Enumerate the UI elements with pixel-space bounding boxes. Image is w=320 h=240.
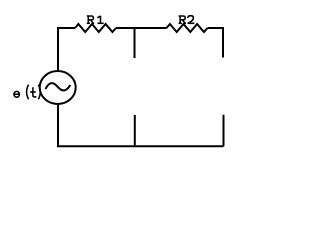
wire R2 to top-right corner down xyxy=(208,28,224,58)
wire bottom from source to right xyxy=(58,104,224,146)
label R2 glyph R xyxy=(179,16,186,23)
label e(t) glyph t xyxy=(30,87,36,97)
wire middle branch lower stub xyxy=(134,115,136,146)
label R1 glyph R xyxy=(87,16,94,23)
wire R1 to R2 xyxy=(116,27,167,29)
label e(t) glyph ) xyxy=(38,85,40,100)
wire right branch lower stub xyxy=(223,115,225,147)
ac source e(t) circle xyxy=(40,71,76,104)
label R1 glyph 1 xyxy=(97,16,103,23)
label e(t) glyph ( xyxy=(27,85,29,100)
resistor R2 xyxy=(167,24,208,32)
node A vertical stub from top wire xyxy=(134,28,136,58)
ac source sine wave xyxy=(46,83,71,90)
label R2 glyph 2 xyxy=(188,16,195,24)
resistor R1 xyxy=(75,24,116,32)
wire top-left from source to R1 xyxy=(58,28,75,71)
label e(t) glyph e xyxy=(14,91,20,97)
